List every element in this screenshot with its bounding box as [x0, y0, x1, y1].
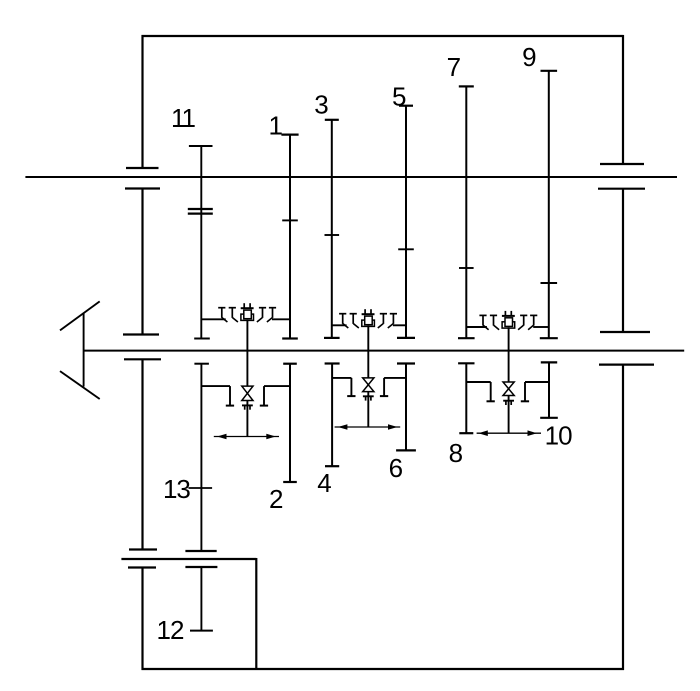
input coupling flange upper cone line — [60, 301, 100, 330]
svg-text:13: 13 — [163, 474, 190, 504]
bearing lower-left (output shaft in left wall) — [123, 335, 161, 360]
shift fork S3 (8/10) right finger with end bar — [521, 382, 529, 401]
synchronizer S1 (gears 11/1) left branch line from gear — [201, 318, 225, 320]
gear 10 bottom end bar — [540, 417, 558, 419]
input coupling hub vertical — [83, 313, 85, 387]
bearing upper-right (input shaft in right wall) — [598, 164, 645, 189]
synchronizer S2 (gears 3/5) right branch line to gear — [393, 324, 406, 326]
shift fork S3 (8/10) pi symbol — [503, 401, 514, 405]
svg-text:3: 3 — [314, 89, 328, 119]
svg-text:5: 5 — [392, 82, 406, 112]
gear 6 vertical line — [405, 364, 407, 451]
gearbox housing bottom wall — [142, 668, 625, 670]
gear 2 top end bar — [283, 363, 297, 365]
upper input shaft centerline — [25, 176, 677, 178]
gear 9 top end bar — [541, 70, 558, 72]
gear 7 bottom end bar — [458, 337, 475, 339]
svg-text:7: 7 — [447, 52, 461, 82]
synchronizer S1 (gears 11/1) hub symbol — [241, 303, 254, 320]
gear 12 bottom end bar — [190, 630, 213, 632]
shift fork S2 (4/6) right arm — [384, 377, 406, 379]
gear 4 bottom end bar — [325, 465, 339, 467]
gear 13 / gear 12 common vertical line — [200, 364, 202, 631]
bearing upper-left (input shaft in left wall) — [125, 168, 160, 189]
svg-text:4: 4 — [317, 468, 331, 498]
shift fork S3 (8/10) left finger with end bar — [487, 382, 495, 401]
lower output housing wall — [121, 558, 256, 560]
gear 11 bottom end bar — [194, 338, 210, 340]
shift travel arrow S2 (4/6) — [335, 424, 401, 430]
gear 13 leader tick — [189, 487, 213, 489]
gear 2 bottom end bar — [283, 481, 297, 483]
synchronizer S1 (gears 11/1) right branch line to gear — [272, 318, 290, 320]
synchronizer S2 (gears 3/5) hub symbol — [362, 309, 375, 326]
synchronizer S3 (gears 7/9) hub symbol — [502, 311, 515, 328]
svg-text:6: 6 — [389, 453, 403, 483]
shift fork S3 (8/10) left arm — [466, 381, 490, 383]
synchronizer S2 (gears 3/5) left branch line from gear — [332, 324, 347, 326]
svg-text:9: 9 — [522, 42, 536, 72]
gear 11 spline double bar upper — [188, 208, 213, 210]
gear 1 bottom end bar — [282, 337, 298, 339]
synchronizer S3 (gears 7/9) left branch line from gear — [466, 326, 487, 328]
gear 6 top end bar — [397, 362, 415, 364]
gearbox housing left wall (segments between bearings) — [141, 35, 143, 670]
bearing lower-right (output shaft in right wall) — [599, 332, 654, 365]
gear 7 hub tick on input shaft — [459, 267, 474, 269]
gear 4 vertical line — [331, 364, 333, 467]
shift fork S2 (4/6) left finger with end bar — [347, 378, 355, 396]
svg-text:10: 10 — [545, 420, 572, 450]
gear 7 vertical line — [465, 86, 467, 338]
gear 11 vertical line — [200, 146, 202, 339]
synchronizer S3 (gears 7/9) right tooth pair — [518, 315, 537, 329]
synchronizer S3 (gears 7/9) left tooth pair — [479, 315, 499, 329]
shift fork S1 (13/2) right arm — [264, 385, 290, 387]
svg-text:11: 11 — [171, 103, 196, 133]
shift fork S1 (13/2) left finger with end bar — [226, 386, 234, 406]
gear 3 vertical line — [331, 120, 333, 338]
gear 9 bottom end bar — [540, 337, 558, 339]
shift fork S3 (8/10) right arm — [525, 381, 549, 383]
gear 10 vertical line — [548, 362, 550, 417]
gearbox housing right wall (segments between bearings) — [622, 35, 624, 670]
svg-text:8: 8 — [449, 438, 463, 468]
synchronizer cone symbol S2 (4/6) (hourglass) — [363, 378, 374, 392]
shift fork S3 stem (hub to arrow, through shaft) — [508, 327, 510, 433]
synchronizer cone symbol S1 (13/2) (hourglass) — [242, 386, 253, 400]
shift travel arrow S3 (8/10) — [477, 430, 541, 436]
gear 8 bottom end bar — [459, 432, 473, 434]
svg-text:1: 1 — [268, 111, 282, 141]
shift fork S1 (13/2) pi symbol — [242, 405, 253, 409]
gear 3 hub tick on input shaft — [325, 234, 340, 236]
gear 10 top end bar — [541, 361, 557, 363]
gear 11 spline double bar lower — [188, 213, 213, 215]
shift fork S2 (4/6) right finger with end bar — [380, 378, 388, 396]
lower output housing right wall — [255, 558, 257, 669]
lower output shaft centerline — [84, 350, 685, 352]
shift fork S2 stem (hub to arrow, through shaft) — [367, 326, 369, 427]
input coupling flange lower cone line — [60, 371, 100, 399]
shift fork S1 (13/2) right finger with end bar — [260, 386, 268, 406]
bearing bottom-mid (gear-12 shaft in output housing) — [185, 551, 217, 567]
gear 9 hub tick on input shaft — [541, 282, 558, 284]
shift fork S2 (4/6) left arm — [332, 377, 351, 379]
shift fork S2 (4/6) pi symbol — [363, 396, 374, 400]
synchronizer S1 (gears 11/1) right tooth pair — [257, 308, 276, 322]
gear 1 top end bar — [281, 134, 298, 136]
gear 7 top end bar — [459, 85, 474, 87]
synchronizer S3 (gears 7/9) right branch line to gear — [533, 326, 549, 328]
shift fork S1 (13/2) left arm — [201, 385, 230, 387]
gear 11 top end bar — [189, 145, 213, 147]
shift travel arrow S1 (13/2) — [214, 434, 279, 440]
gear 5 top end bar — [399, 105, 413, 107]
gear 13 top end bar — [194, 363, 209, 365]
synchronizer S2 (gears 3/5) left tooth pair — [339, 314, 359, 328]
shift fork S1 stem (hub to arrow, through shaft) — [246, 320, 248, 437]
gearbox housing top wall — [142, 35, 624, 37]
gear 8 vertical line — [465, 363, 467, 433]
bearing bottom-left (left wall in output housing) — [128, 550, 157, 568]
synchronizer S2 (gears 3/5) right tooth pair — [378, 314, 397, 328]
gear 9 vertical line — [548, 71, 550, 338]
svg-text:2: 2 — [269, 484, 283, 514]
gear 3 bottom end bar — [324, 337, 340, 339]
gear 5 hub tick on input shaft — [398, 248, 414, 250]
gear 6 bottom end bar — [396, 449, 416, 451]
gear 2 vertical line — [289, 364, 291, 482]
gear 3 top end bar — [325, 119, 339, 121]
gear 4 top end bar — [325, 362, 340, 364]
svg-text:12: 12 — [157, 615, 184, 645]
gear 1 vertical line — [289, 135, 291, 339]
gear 1 hub tick on input shaft — [282, 219, 298, 221]
gear 8 top end bar — [458, 362, 474, 364]
gear 5 bottom end bar — [397, 337, 415, 339]
gear 5 vertical line — [405, 106, 407, 338]
synchronizer cone symbol S3 (8/10) (hourglass) — [503, 382, 514, 396]
synchronizer S1 (gears 11/1) left tooth pair — [218, 308, 238, 322]
